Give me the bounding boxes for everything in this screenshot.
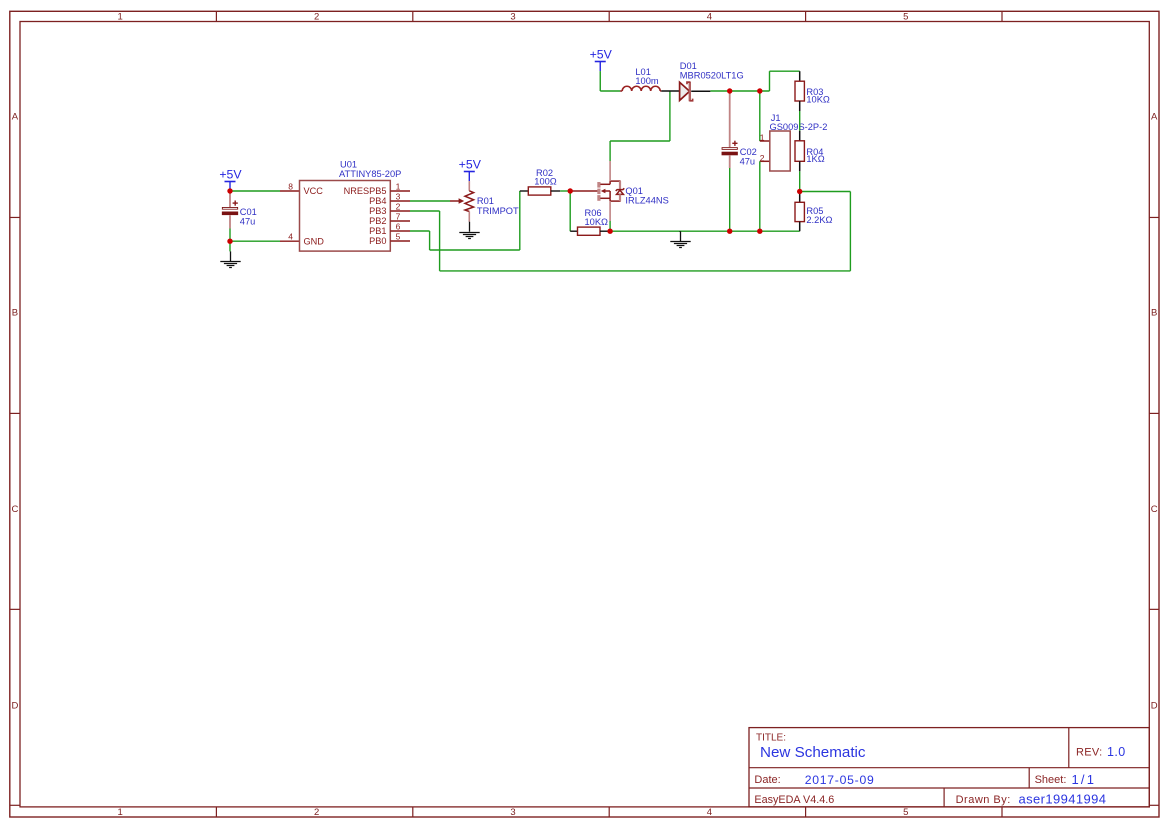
- svg-text:GND: GND: [304, 236, 325, 246]
- svg-text:2: 2: [314, 807, 319, 818]
- svg-text:B: B: [1151, 308, 1157, 319]
- svg-text:Q01: Q01: [625, 186, 643, 196]
- svg-text:10KΩ: 10KΩ: [806, 94, 830, 104]
- svg-text:2017-05-09: 2017-05-09: [805, 773, 875, 787]
- svg-text:4: 4: [707, 12, 712, 23]
- svg-text:PB4: PB4: [369, 196, 386, 206]
- svg-text:100m: 100m: [635, 76, 659, 86]
- svg-text:2: 2: [396, 201, 401, 211]
- svg-text:5: 5: [903, 807, 908, 818]
- svg-text:4: 4: [707, 807, 712, 818]
- svg-text:Date:: Date:: [754, 774, 780, 786]
- svg-text:1.0: 1.0: [1107, 745, 1126, 759]
- svg-text:Drawn By:: Drawn By:: [956, 794, 1011, 806]
- svg-text:PB1: PB1: [369, 226, 386, 236]
- svg-text:1/1: 1/1: [1072, 772, 1097, 787]
- svg-text:1: 1: [396, 181, 401, 191]
- svg-text:TRIMPOT: TRIMPOT: [477, 206, 519, 216]
- svg-text:A: A: [1151, 111, 1158, 122]
- svg-text:MBR0520LT1G: MBR0520LT1G: [680, 70, 744, 80]
- svg-text:47u: 47u: [240, 217, 256, 227]
- svg-text:+5V: +5V: [590, 48, 613, 62]
- svg-text:+5V: +5V: [219, 168, 242, 182]
- svg-text:3: 3: [396, 191, 401, 201]
- svg-text:D: D: [11, 701, 18, 712]
- svg-text:PB2: PB2: [369, 216, 386, 226]
- svg-text:VCC: VCC: [304, 186, 324, 196]
- svg-text:REV:: REV:: [1076, 746, 1102, 758]
- svg-text:1KΩ: 1KΩ: [806, 154, 824, 164]
- svg-text:U01: U01: [340, 160, 357, 170]
- svg-text:5: 5: [903, 12, 908, 23]
- svg-text:6: 6: [396, 221, 401, 231]
- svg-text:New Schematic: New Schematic: [760, 744, 866, 761]
- svg-text:2: 2: [760, 153, 765, 163]
- svg-text:TITLE:: TITLE:: [756, 732, 786, 743]
- svg-text:R01: R01: [477, 196, 494, 206]
- svg-text:GS009S-2P-2: GS009S-2P-2: [770, 122, 828, 132]
- svg-text:47u: 47u: [740, 157, 756, 167]
- svg-text:8: 8: [288, 182, 293, 192]
- svg-text:C: C: [11, 504, 18, 515]
- svg-text:PB3: PB3: [369, 206, 386, 216]
- svg-text:3: 3: [510, 807, 515, 818]
- svg-text:100Ω: 100Ω: [534, 177, 557, 187]
- svg-text:+5V: +5V: [459, 158, 482, 172]
- svg-text:C02: C02: [740, 147, 757, 157]
- svg-text:EasyEDA V4.4.6: EasyEDA V4.4.6: [754, 794, 834, 806]
- svg-text:B: B: [12, 308, 18, 319]
- svg-text:A: A: [12, 111, 19, 122]
- svg-text:D: D: [1151, 701, 1158, 712]
- svg-text:Sheet:: Sheet:: [1035, 774, 1067, 786]
- svg-text:NRESPB5: NRESPB5: [344, 186, 387, 196]
- svg-text:1: 1: [760, 132, 765, 142]
- svg-text:2: 2: [314, 12, 319, 23]
- svg-text:10KΩ: 10KΩ: [585, 217, 609, 227]
- svg-text:5: 5: [396, 231, 401, 241]
- svg-text:1: 1: [118, 12, 123, 23]
- svg-text:1: 1: [118, 807, 123, 818]
- svg-text:4: 4: [288, 232, 293, 242]
- svg-text:C: C: [1151, 504, 1158, 515]
- svg-text:IRLZ44NS: IRLZ44NS: [625, 196, 668, 206]
- svg-text:7: 7: [396, 211, 401, 221]
- svg-text:ATTINY85-20P: ATTINY85-20P: [339, 169, 401, 179]
- svg-text:3: 3: [510, 12, 515, 23]
- svg-text:C01: C01: [240, 207, 257, 217]
- svg-text:aser19941994: aser19941994: [1019, 792, 1107, 807]
- svg-text:2.2KΩ: 2.2KΩ: [806, 215, 832, 225]
- svg-text:PB0: PB0: [369, 236, 386, 246]
